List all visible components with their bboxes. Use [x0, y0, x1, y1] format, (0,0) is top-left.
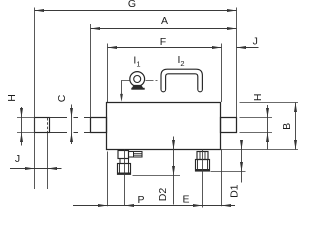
- dimension H right line: [267, 105, 269, 150]
- svg-text:B: B: [281, 123, 293, 130]
- svg-text:A: A: [161, 15, 168, 27]
- svg-text:H: H: [6, 94, 18, 102]
- elbow side pipe bore: [134, 153, 143, 155]
- far-left block hidden line: [47, 118, 49, 132]
- eye-bolt ring inner circle: [134, 76, 141, 83]
- elbow sleeve inner lines: [120, 164, 129, 175]
- eye-bolt ring outer circle: [130, 72, 145, 87]
- svg-text:H: H: [252, 94, 264, 102]
- straight fitting sleeve: [196, 160, 210, 172]
- elbow fitting top block: [118, 151, 129, 159]
- far-left block: [35, 118, 50, 133]
- extension line body right edge down to E: [221, 150, 223, 207]
- svg-text:J: J: [253, 35, 258, 47]
- dimension C line: [71, 105, 73, 145]
- dimension F arrows: [108, 46, 222, 49]
- right port block: [221, 118, 237, 133]
- svg-text:G: G: [128, 0, 136, 10]
- dimension D2 line: [173, 137, 175, 205]
- svg-text:C: C: [56, 94, 68, 102]
- extension line F left: [107, 44, 109, 103]
- svg-text:P: P: [137, 194, 144, 206]
- I1 leader arrow: [120, 94, 123, 102]
- elbow side pipe divider: [133, 152, 135, 158]
- dimension J bottom arrows: [25, 167, 57, 170]
- straight fitting sleeve inner lines: [198, 160, 208, 172]
- dimension A arrows: [91, 27, 237, 30]
- extension line H left bottom: [17, 132, 35, 134]
- extension line D1 bottom: [211, 171, 246, 173]
- extension line F right: [221, 44, 223, 103]
- straight fitting centerline: [202, 150, 204, 208]
- straight fitting dark band: [196, 169, 210, 171]
- dimension H left line: [21, 107, 23, 146]
- dimension J bottom line: [10, 168, 62, 170]
- svg-text:D1: D1: [228, 184, 240, 198]
- dimension A line: [91, 28, 237, 30]
- svg-text:J: J: [15, 153, 20, 165]
- elbow side pipe: [129, 152, 143, 158]
- svg-text:D2: D2: [157, 188, 169, 202]
- dimension H right arrows: [266, 108, 269, 142]
- dimension D1 line: [241, 141, 243, 183]
- svg-text:E: E: [182, 194, 189, 206]
- U-bolt leg caps: [161, 90, 202, 92]
- dimension B line: [295, 103, 297, 150]
- connector line top (block to port): [50, 117, 91, 119]
- body main block: [107, 103, 221, 150]
- extension line H right bottom: [240, 132, 273, 134]
- dimension P arrows: [98, 204, 134, 207]
- I1 leader line: [122, 81, 130, 100]
- dimension H left arrows: [20, 108, 23, 142]
- extension line body bottom (B/D1/D2): [221, 149, 299, 151]
- straight fitting nut flats: [200, 152, 205, 160]
- extension line D2 bottom: [133, 175, 181, 177]
- dimension J top line: [237, 47, 259, 49]
- dimension C arrows: [70, 108, 73, 142]
- svg-text:F: F: [160, 36, 166, 48]
- dimension J top arrow: [237, 46, 247, 49]
- dimension P/E line: [73, 205, 235, 207]
- eye-bolt foot bar: [131, 88, 144, 90]
- dimension G arrows: [35, 9, 237, 12]
- elbow centerline: [124, 150, 126, 206]
- left port block: [91, 118, 107, 133]
- dimension D1 arrows: [240, 140, 243, 172]
- dimension G line: [35, 10, 237, 12]
- connector line bottom (block to port): [50, 132, 91, 134]
- elbow nut: [120, 159, 129, 164]
- dimension F line: [108, 47, 222, 49]
- eye-bolt base: [132, 85, 143, 88]
- elbow sleeve: [118, 164, 131, 175]
- straight fitting nut: [197, 152, 208, 160]
- extension line H right top: [240, 117, 273, 119]
- extension line H left top: [17, 117, 35, 119]
- extension line left edge (G/J): [34, 8, 36, 190]
- dimension B arrows: [294, 103, 297, 150]
- elbow sleeve dark band: [118, 173, 131, 175]
- extension line right edge (G/A/J): [236, 8, 238, 118]
- extension line J bottom right: [47, 133, 49, 190]
- dimension E arrows: [193, 204, 231, 207]
- extension line P left: [107, 152, 109, 207]
- U-bolt bracket I2: [161, 69, 202, 89]
- dimension D2 arrows: [172, 140, 175, 176]
- extension line A left: [90, 24, 92, 118]
- ring centerline dashes: [146, 80, 158, 82]
- extension line body top right (B): [240, 102, 299, 104]
